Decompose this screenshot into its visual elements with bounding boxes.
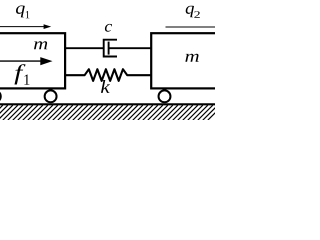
force arrow f1: head (40, 57, 52, 65)
coordinate arrow q2 (head beyond right edge) (166, 26, 217, 28)
mass box right (m) (151, 33, 235, 88)
wheel (left mass) (45, 90, 57, 102)
force arrow f1: line (0, 60, 43, 62)
wheel (right mass) (159, 90, 171, 102)
damper c: cylinder (104, 40, 117, 57)
label m (right mass) (185, 54, 198, 62)
label m (left mass) (34, 41, 47, 49)
mass box left (m) (0, 33, 65, 88)
coordinate arrow q1: line (0, 26, 45, 28)
wheel (left mass, partially visible at left edge) (0, 90, 1, 102)
damper c: piston plate (108, 42, 110, 55)
ground hatching (0, 105, 223, 120)
spring k (65, 69, 151, 81)
label q1 (16, 6, 25, 18)
label f1 (15, 64, 26, 84)
coordinate arrow q1: head (44, 24, 52, 29)
label c (105, 24, 112, 32)
label q2 (186, 6, 194, 18)
damper c: rod from left mass (65, 47, 104, 49)
damper c: rod to right mass (109, 47, 152, 49)
label k (101, 80, 110, 93)
ground line (0, 103, 215, 105)
